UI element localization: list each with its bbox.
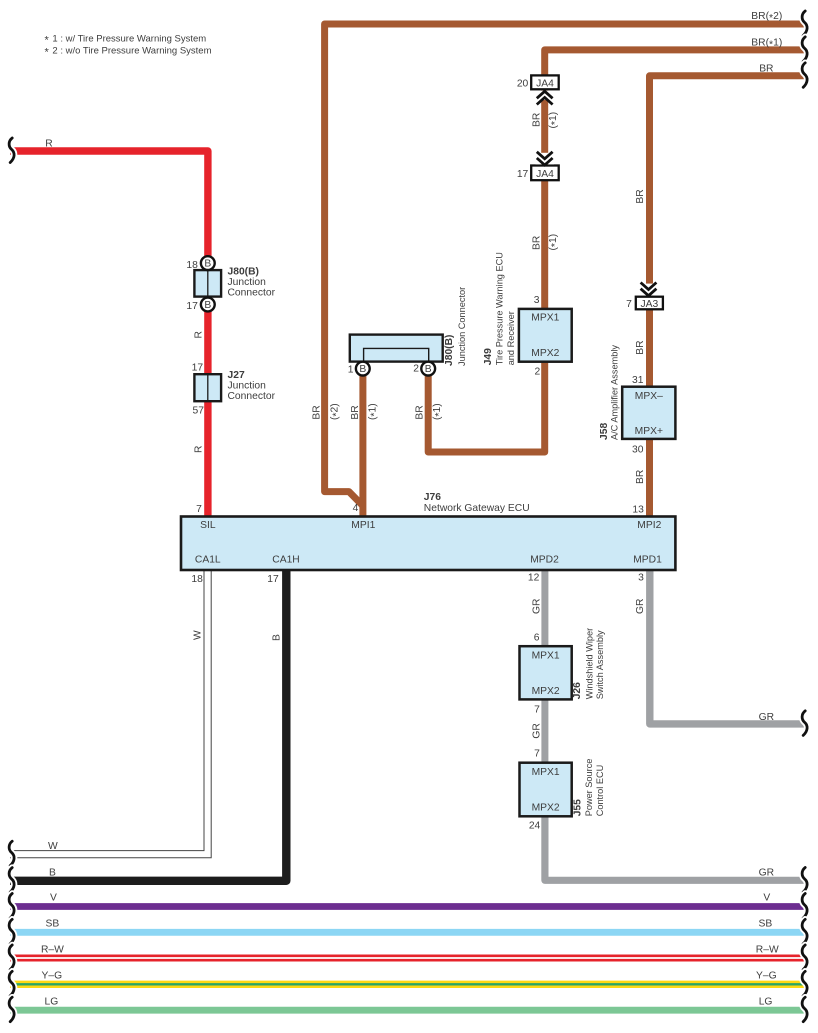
svg-text:BR: BR bbox=[759, 63, 773, 74]
svg-text:and Receiver: and Receiver bbox=[506, 311, 516, 365]
wire end curl Y-G left bbox=[9, 971, 14, 996]
svg-text:J27: J27 bbox=[228, 370, 245, 381]
svg-text:Windshield Wiper: Windshield Wiper bbox=[584, 628, 594, 699]
wire R from left edge to J76 SIL pin 7 bbox=[10, 151, 208, 517]
svg-text:J76: J76 bbox=[424, 492, 441, 503]
junction connector J80(B) left box bbox=[194, 270, 221, 297]
svg-text:Y–G: Y–G bbox=[42, 970, 63, 981]
svg-text:17: 17 bbox=[517, 169, 529, 180]
svg-text:MPX+: MPX+ bbox=[635, 426, 663, 437]
svg-text:Tire Pressure Warning ECU: Tire Pressure Warning ECU bbox=[494, 252, 504, 365]
svg-text:17: 17 bbox=[186, 301, 198, 312]
svg-text:Junction Connector: Junction Connector bbox=[457, 287, 467, 366]
label J58 rotated block bbox=[599, 345, 619, 440]
ECU J55 box bbox=[520, 763, 572, 817]
wire end curl LG left bbox=[9, 997, 14, 1022]
wire end curl W left bbox=[9, 841, 14, 866]
svg-text:MPI1: MPI1 bbox=[351, 520, 375, 531]
wire end curl B left bbox=[9, 868, 14, 893]
svg-text:MPI2: MPI2 bbox=[637, 520, 661, 531]
svg-text:MPD2: MPD2 bbox=[530, 555, 559, 566]
label J26 rotated block bbox=[572, 628, 605, 699]
svg-text:R: R bbox=[194, 331, 205, 338]
wire R-W bottom bbox=[10, 955, 805, 962]
svg-text:13: 13 bbox=[632, 505, 644, 516]
ECU J58 box bbox=[622, 387, 675, 439]
wire Y-G bottom bbox=[10, 981, 805, 988]
svg-text:JA4: JA4 bbox=[536, 169, 554, 180]
svg-text:18: 18 bbox=[186, 260, 198, 271]
wire end curl BR(*1) right bbox=[802, 37, 807, 62]
svg-text:6: 6 bbox=[534, 633, 540, 644]
svg-text:1: 1 bbox=[348, 364, 354, 375]
svg-text:7: 7 bbox=[626, 299, 632, 310]
svg-text:18: 18 bbox=[191, 574, 203, 585]
svg-text:(*2): (*2) bbox=[330, 403, 343, 420]
svg-text:LG: LG bbox=[45, 997, 59, 1008]
svg-text:GR: GR bbox=[759, 712, 774, 723]
svg-text:V: V bbox=[50, 893, 57, 904]
wire BR from J49 MPX2 pin 2 down, left, up to J80(B) pin 2 bbox=[428, 362, 545, 452]
wire BR J58 MPX+ pin 30 to J76 MPI2 pin 13 bbox=[646, 439, 653, 517]
wire GR from J76 MPD2 pin 12 to J26 bbox=[541, 570, 548, 646]
junction connector J80(B) horizontal box bbox=[350, 335, 443, 362]
wire BR between JA4 20 and JA4 17 bbox=[541, 89, 548, 165]
wire end curl BR(*2) right bbox=[802, 11, 807, 36]
svg-text:B: B bbox=[359, 364, 366, 375]
svg-text:BR: BR bbox=[531, 113, 542, 127]
svg-text:CA1L: CA1L bbox=[195, 555, 221, 566]
wire B from J76 CA1H pin 17 down and left bbox=[10, 570, 286, 881]
label J80(B) horizontal rotated block bbox=[444, 287, 467, 366]
wire end curl LG right bbox=[802, 997, 807, 1022]
wire end curl R left bbox=[9, 138, 14, 163]
connector JA4 pin 20 box bbox=[531, 75, 559, 89]
svg-text:2: 2 bbox=[413, 364, 419, 375]
wire end curl GR right bottom bbox=[802, 868, 807, 893]
wire BR(*2) top horizontal + left vertical + jog into MPI1 bbox=[325, 24, 805, 505]
svg-text:12: 12 bbox=[528, 572, 540, 583]
svg-text:R: R bbox=[45, 139, 52, 150]
svg-text:2: 2 bbox=[534, 366, 540, 377]
svg-text:31: 31 bbox=[632, 375, 644, 386]
svg-text:Junction: Junction bbox=[228, 277, 267, 288]
svg-text:MPX1: MPX1 bbox=[532, 767, 560, 778]
svg-text:* 2 : w/o Tire Pressure Warnin: * 2 : w/o Tire Pressure Warning System bbox=[45, 45, 212, 58]
svg-text:J49: J49 bbox=[483, 348, 494, 365]
svg-text:17: 17 bbox=[192, 363, 204, 374]
svg-text:SB: SB bbox=[759, 918, 773, 929]
svg-text:J55: J55 bbox=[573, 799, 584, 816]
wire end curl GR right mid bbox=[802, 711, 807, 736]
svg-text:MPX1: MPX1 bbox=[532, 650, 560, 661]
svg-text:7: 7 bbox=[534, 749, 540, 760]
svg-text:17: 17 bbox=[267, 574, 279, 585]
wire BR(*1) top horizontal to JA4 20 bbox=[545, 50, 805, 76]
label J55 rotated block bbox=[573, 759, 606, 817]
svg-text:Power Source: Power Source bbox=[584, 759, 594, 817]
svg-text:Connector: Connector bbox=[228, 287, 276, 298]
svg-text:(*1): (*1) bbox=[548, 112, 561, 129]
svg-text:Switch Assembly: Switch Assembly bbox=[595, 630, 605, 699]
svg-text:SIL: SIL bbox=[200, 520, 216, 531]
svg-text:30: 30 bbox=[632, 444, 644, 455]
wire SB bottom bbox=[10, 929, 805, 936]
svg-text:MPX1: MPX1 bbox=[531, 313, 559, 324]
svg-text:B: B bbox=[49, 867, 56, 878]
svg-text:MPD1: MPD1 bbox=[633, 555, 662, 566]
wire end curl BR right bbox=[802, 63, 807, 88]
svg-text:4: 4 bbox=[353, 503, 359, 514]
svg-text:MPX–: MPX– bbox=[635, 391, 663, 402]
svg-text:R–W: R–W bbox=[41, 944, 64, 955]
wire V bottom bbox=[10, 903, 805, 910]
svg-text:Connector: Connector bbox=[228, 391, 276, 402]
svg-text:(*1): (*1) bbox=[548, 234, 561, 251]
node B circle pin 17 of J80(B) bbox=[201, 298, 215, 312]
svg-text:J26: J26 bbox=[572, 682, 583, 699]
svg-text:(*1): (*1) bbox=[432, 403, 445, 420]
wire BR right horizontal to JA3 and J58 bbox=[650, 76, 806, 297]
connector JA3 pin 7 box bbox=[636, 297, 663, 310]
svg-text:MPX2: MPX2 bbox=[532, 686, 560, 697]
svg-text:GR: GR bbox=[532, 723, 543, 738]
wire LG bottom bbox=[10, 1007, 805, 1014]
svg-text:JA4: JA4 bbox=[536, 78, 554, 89]
ECU J26 box bbox=[520, 646, 572, 699]
svg-text:MPX2: MPX2 bbox=[531, 348, 559, 359]
svg-text:MPX2: MPX2 bbox=[532, 803, 560, 814]
arrow chevrons up below JA4 20 bbox=[536, 91, 554, 105]
svg-text:JA3: JA3 bbox=[641, 299, 659, 310]
arrow chevrons down above JA3 bbox=[639, 283, 657, 296]
svg-text:V: V bbox=[763, 893, 770, 904]
svg-text:BR: BR bbox=[350, 405, 361, 419]
wire GR from J76 MPD1 pin 3 down and right to edge bbox=[650, 570, 805, 724]
svg-text:BR: BR bbox=[635, 189, 646, 203]
connector JA4 pin 17 box bbox=[531, 166, 559, 181]
svg-text:BR: BR bbox=[635, 470, 646, 484]
svg-text:Junction: Junction bbox=[228, 380, 267, 391]
svg-text:CA1H: CA1H bbox=[272, 555, 299, 566]
svg-text:A/C Amplifier Assembly: A/C Amplifier Assembly bbox=[609, 345, 619, 440]
wire end curl SB right bbox=[802, 919, 807, 944]
node B circle pin 2 of J80(B) horizontal bbox=[421, 362, 435, 376]
wire BR from JA4 17 to J49 MPX1 pin 3 bbox=[541, 180, 548, 309]
ECU J76 box bbox=[181, 517, 675, 571]
svg-text:3: 3 bbox=[534, 295, 540, 306]
wire GR from J26 pin 7 to J55 pin 7 bbox=[541, 699, 548, 762]
arrow chevrons down above JA4 17 bbox=[536, 152, 554, 165]
label J27 block bbox=[228, 370, 276, 402]
wire GR from J55 pin 24 down and right to edge bbox=[545, 816, 805, 880]
svg-text:R: R bbox=[194, 446, 205, 453]
svg-text:24: 24 bbox=[529, 821, 541, 832]
svg-text:B: B bbox=[204, 259, 211, 270]
svg-text:3: 3 bbox=[638, 572, 644, 583]
wire BR JA3 to J58 MPX- pin 31 bbox=[646, 309, 653, 386]
svg-text:20: 20 bbox=[517, 78, 529, 89]
label J76 block bbox=[424, 492, 530, 514]
node B circle pin 1 of J80(B) horizontal bbox=[356, 362, 370, 376]
node B circle pin 18 of J80(B) bbox=[201, 256, 215, 270]
wire end curl V left bbox=[9, 894, 14, 919]
svg-text:Control ECU: Control ECU bbox=[595, 765, 605, 817]
svg-text:R–W: R–W bbox=[756, 944, 779, 955]
wire end curl R-W right bbox=[802, 945, 807, 970]
svg-text:B: B bbox=[271, 634, 282, 641]
wire end curl R-W left bbox=[9, 945, 14, 970]
label J49 rotated block bbox=[483, 252, 516, 365]
junction connector J27 box bbox=[194, 374, 221, 401]
svg-text:(*1): (*1) bbox=[367, 403, 380, 420]
wire end curl SB left bbox=[9, 919, 14, 944]
svg-text:J80(B): J80(B) bbox=[444, 335, 455, 366]
wire end curl Y-G right bbox=[802, 971, 807, 996]
label J80(B) left block bbox=[228, 266, 276, 298]
svg-text:Y–G: Y–G bbox=[756, 970, 777, 981]
svg-text:GR: GR bbox=[759, 867, 774, 878]
svg-text:SB: SB bbox=[46, 918, 60, 929]
svg-text:BR: BR bbox=[311, 405, 322, 419]
svg-text:GR: GR bbox=[532, 599, 543, 614]
svg-text:LG: LG bbox=[759, 997, 773, 1008]
wire end curl V right bbox=[802, 894, 807, 919]
svg-text:BR: BR bbox=[415, 405, 426, 419]
wire W hollow from J76 CA1L pin 18 down and left bbox=[10, 570, 208, 854]
svg-text:7: 7 bbox=[534, 704, 540, 715]
ECU J49 box bbox=[519, 309, 572, 362]
svg-text:7: 7 bbox=[196, 504, 202, 515]
svg-text:W: W bbox=[48, 841, 58, 852]
svg-text:GR: GR bbox=[635, 599, 646, 614]
svg-text:J80(B): J80(B) bbox=[228, 266, 259, 277]
svg-text:BR: BR bbox=[531, 236, 542, 250]
svg-text:Network Gateway ECU: Network Gateway ECU bbox=[424, 503, 530, 514]
wire BR from J80(B) pin 1 down to J76 MPI1 pin 4 bbox=[359, 375, 366, 516]
svg-text:W: W bbox=[192, 630, 203, 640]
svg-text:B: B bbox=[204, 300, 211, 311]
svg-text:57: 57 bbox=[193, 406, 205, 417]
svg-text:BR: BR bbox=[635, 340, 646, 354]
svg-text:B: B bbox=[425, 364, 432, 375]
